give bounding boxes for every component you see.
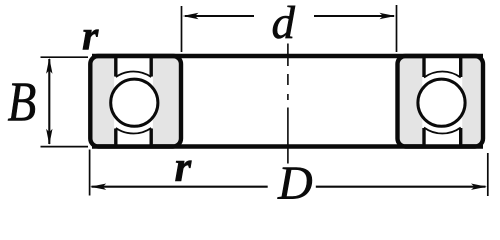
svg-text:r: r (82, 14, 99, 60)
svg-text:D: D (277, 157, 313, 209)
svg-text:B: B (8, 72, 37, 134)
svg-text:r: r (175, 144, 193, 191)
svg-text:d: d (272, 0, 296, 49)
